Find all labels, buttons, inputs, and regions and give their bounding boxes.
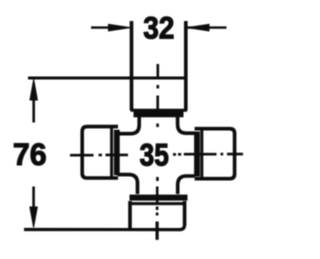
top cup open-end line + 76 upper extension line bbox=[28, 77, 187, 80]
left cup lip line bbox=[110, 127, 113, 178]
fillet bottom-right (right neck to bottom neck) bbox=[178, 176, 195, 194]
right bearing cup outline bbox=[195, 129, 235, 179]
dim 32: right arrowhead bbox=[187, 24, 209, 31]
svg-text:35: 35 bbox=[140, 139, 169, 174]
top cup seal band bbox=[134, 111, 184, 117]
dim 32: left arrowhead bbox=[109, 24, 131, 31]
left cup seal band bbox=[114, 130, 120, 175]
vertical centerline (dash-dot) bbox=[156, 64, 159, 216]
horizontal centerline (dash-dot) bbox=[70, 154, 243, 155]
dim 76: vertical dimension line lower segment bbox=[32, 187, 35, 210]
svg-text:32: 32 bbox=[143, 11, 174, 46]
fillet bottom-left (left neck to bottom neck) bbox=[118, 175, 138, 194]
dim 76: vertical dimension line upper segment bbox=[32, 98, 35, 123]
fillet top-right (top neck to right neck) bbox=[178, 117, 195, 134]
dim 76: upper arrowhead (points up) bbox=[30, 79, 37, 100]
bottom bearing cup seal band bbox=[130, 195, 188, 201]
fillet top-left (top neck to left neck) bbox=[118, 117, 140, 134]
dim 32: right dimension line bbox=[188, 26, 227, 28]
dim 32: left dimension line bbox=[91, 26, 110, 28]
right cup seal band bbox=[194, 132, 200, 177]
svg-text:76: 76 bbox=[13, 136, 47, 172]
right cup lip line bbox=[200, 129, 203, 179]
bottom cup sides bbox=[130, 201, 185, 229]
bottom cup lip line bbox=[129, 202, 185, 205]
dim 76: lower arrowhead (points down) bbox=[30, 207, 37, 227]
vertical centerline lower solid crossing bbox=[156, 222, 159, 240]
top bearing cup sides / 32 extension lines bbox=[132, 21, 186, 111]
top cup bottom lip line bbox=[131, 109, 188, 112]
bottom cup bottom edge (continuous with 76 extension line, rounded right corner) bbox=[24, 225, 185, 230]
left bearing cup outline bbox=[82, 127, 118, 178]
